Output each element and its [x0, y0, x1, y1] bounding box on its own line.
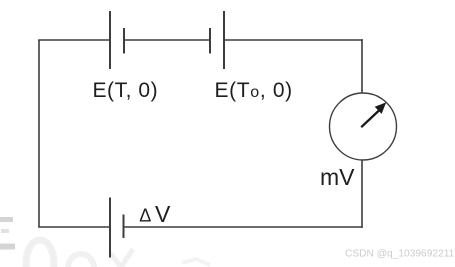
wire right vertical upper [361, 39, 363, 93]
svg-text:E(T, 0): E(T, 0) [93, 79, 159, 102]
wire top segment 3 [224, 39, 363, 41]
svg-text:mV: mV [320, 164, 355, 190]
battery B2 long plate [223, 11, 225, 69]
watermark text CSDN [345, 249, 455, 260]
label E(T, 0) [93, 79, 159, 102]
svg-text:V: V [155, 201, 171, 227]
wire right vertical lower [361, 160, 363, 228]
label E(To, 0) [215, 79, 293, 102]
battery B3 long plate [109, 198, 111, 258]
svg-text:Δ: Δ [139, 206, 151, 226]
battery B1 short plate [123, 28, 125, 54]
label mV [320, 164, 355, 190]
battery B3 short plate [123, 215, 125, 239]
battery B1 long plate [109, 11, 111, 69]
label delta V [139, 201, 171, 227]
watermark faint digits bottom-left [26, 240, 210, 267]
wire top segment 2 [124, 39, 210, 41]
wire top segment 1 [38, 39, 110, 41]
watermark logo fragment bottom-left [0, 217, 15, 250]
meter M1 needle [361, 102, 386, 127]
battery B2 short plate [209, 28, 211, 54]
wire left vertical [38, 40, 40, 227]
wire bottom segment left [38, 226, 110, 228]
meter M1 body circle [330, 93, 397, 160]
svg-text:E(To, 0): E(To, 0) [215, 79, 293, 102]
svg-text:CSDN @q_1039692211: CSDN @q_1039692211 [345, 249, 455, 260]
wire bottom segment right [124, 226, 363, 228]
